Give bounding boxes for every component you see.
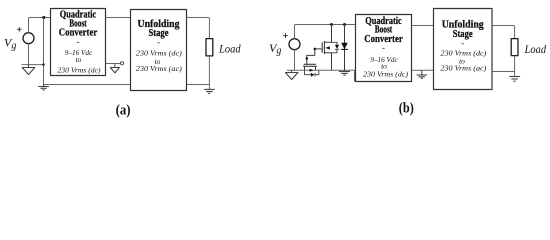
svg-text:to: to [76, 55, 82, 64]
wire block2 to load top (b) [492, 26, 515, 39]
block Unfolding Stage (b) [434, 9, 493, 90]
signal ground triangle at Vg (b) [291, 70, 293, 72]
svg-text:-: - [77, 36, 80, 46]
transistor M2 right stub [315, 66, 317, 70]
load resistor box (a) [206, 39, 213, 56]
signal ground triangle mid (a) [114, 64, 116, 68]
svg-text:-: - [382, 43, 385, 53]
transistor M1 source lead [324, 53, 331, 70]
svg-text:(a): (a) [116, 103, 131, 119]
wire Vg+ top [29, 18, 51, 34]
diode D vertical branch [344, 25, 346, 71]
rail block2 to load (b) [492, 71, 515, 73]
earth ground left (a) [38, 85, 49, 90]
node dot diode branch [343, 23, 346, 26]
wire left vertical [43, 18, 45, 85]
wire horizontal Vg- to left vertical [22, 64, 44, 66]
diode D cathode bar [341, 48, 348, 50]
wire block2 to load top (a) [187, 18, 210, 39]
wire Vg- bottom (b) [294, 49, 296, 70]
plus polarity mark [17, 27, 22, 32]
transistor M2 body diode loop [305, 70, 319, 75]
wire M2 to junction [305, 69, 355, 71]
svg-text:Load: Load [524, 44, 547, 56]
plus polarity mark (b) [283, 33, 288, 38]
earth ground mid (b) [339, 70, 350, 75]
wire block1-block2 bottom (a) with open terminal [106, 63, 121, 65]
transistor M1 gate bar [321, 42, 323, 53]
node dot Vg- junction [42, 63, 45, 66]
svg-text:230 Vrms (dc): 230 Vrms (dc) [58, 65, 102, 74]
earth ground between blocks (b) [417, 70, 428, 78]
wire block1-block2 bottom (b) [412, 69, 434, 71]
block Unfolding Stage (a) [131, 10, 187, 91]
transistor M2 left stub [304, 66, 306, 70]
node dot gate M1 [314, 48, 317, 51]
earth ground right (b) [509, 77, 520, 82]
transistor M1 body diode loop [332, 42, 338, 53]
block Quadratic Boost Converter (a) [51, 9, 106, 76]
transistor M2 channel bar [303, 65, 317, 67]
svg-text:230 Vrms (ac): 230 Vrms (ac) [440, 64, 487, 73]
diode D triangle [341, 43, 348, 49]
svg-text:(b): (b) [399, 101, 414, 117]
transistor M2 arrow on wire [310, 69, 314, 72]
transistor M1 body arrow [325, 46, 329, 49]
load resistor box (b) [511, 39, 518, 56]
wire block1-block2 top (b) [412, 25, 434, 27]
wire load bottom (b) [514, 56, 516, 77]
node dot drain branch [330, 23, 333, 26]
svg-text:Load: Load [218, 44, 241, 56]
wire Vg- bottom [28, 43, 30, 64]
svg-text:230 Vrms (ac): 230 Vrms (ac) [136, 64, 183, 73]
wire step down to block1 (b) [354, 70, 356, 81]
earth ground right (a) [204, 89, 215, 93]
wire Vg+ top (b) [295, 25, 356, 40]
signal ground triangle at Vg [28, 65, 30, 68]
svg-text:-: - [461, 38, 464, 48]
wire block1-block2 top (a) [106, 17, 131, 19]
block Quadratic Boost Converter (b) [356, 15, 412, 82]
voltage source Vg circle [23, 33, 34, 44]
wire horizontal Vg- (b) [287, 69, 305, 71]
transistor M2 gate bar [304, 63, 316, 65]
open circle terminal [120, 62, 123, 65]
voltage source Vg circle (b) [289, 39, 300, 50]
bottom rail (a) [44, 84, 210, 86]
wire gate link M1-M2 [307, 49, 322, 64]
node dot gate M2 [306, 57, 309, 60]
transistor M1 drain lead [324, 25, 331, 43]
transistor M1 channel bar [323, 41, 325, 54]
svg-text:-: - [157, 37, 160, 47]
node dot on top wire [42, 16, 45, 19]
svg-text:230 Vrms (dc): 230 Vrms (dc) [363, 69, 409, 78]
wire load bottom (a) [208, 56, 210, 89]
